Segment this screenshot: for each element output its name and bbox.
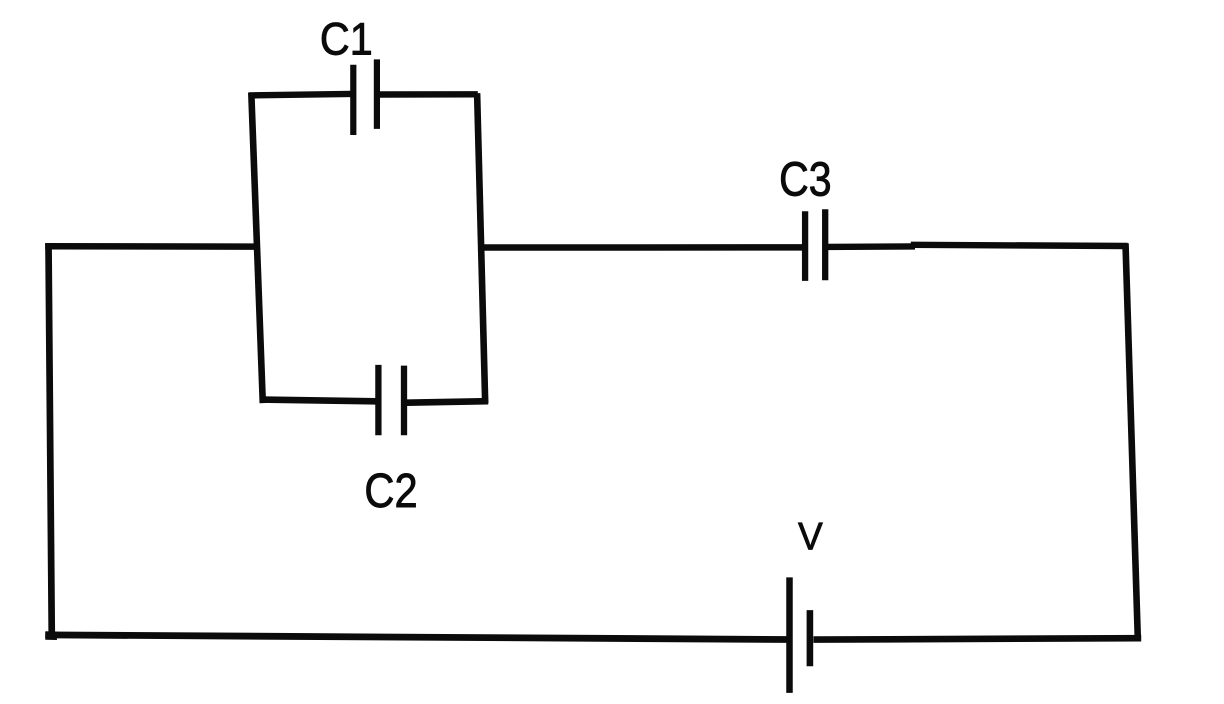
svg-text:C2: C2 xyxy=(364,465,417,518)
wire: bottom, battery short plate to right corner xyxy=(814,638,1142,639)
capacitor C1 xyxy=(353,59,377,135)
wire: outer left vertical xyxy=(49,243,52,639)
battery V long plate xyxy=(786,577,793,693)
wire: bottom, left corner to battery long plate xyxy=(45,635,786,640)
wire: block top edge left (to C1) xyxy=(249,94,351,96)
wire: block bottom edge right (from C2) xyxy=(407,401,489,403)
wire: block right edge vertical xyxy=(477,93,485,403)
svg-text:C3: C3 xyxy=(779,153,832,207)
svg-text:C1: C1 xyxy=(320,13,373,64)
wire: top main, left corner to parallel block xyxy=(45,243,259,250)
capacitor C2 xyxy=(378,365,404,435)
wire: block left edge vertical xyxy=(251,93,262,403)
wire: outer right vertical xyxy=(1126,243,1138,638)
wire: top main, parallel block to C3 left plate xyxy=(481,244,804,251)
capacitor C3 xyxy=(805,209,825,281)
wire: bottom-left corner end blob xyxy=(45,631,57,640)
wire: C3 right plate to jog xyxy=(827,243,915,250)
wire: jog to top-right corner xyxy=(911,245,1128,246)
wire: block bottom edge left (to C2) xyxy=(261,400,376,402)
battery V short plate xyxy=(807,610,814,666)
svg-text:V: V xyxy=(798,516,823,559)
wire: block top edge right (from C1) xyxy=(380,91,478,98)
